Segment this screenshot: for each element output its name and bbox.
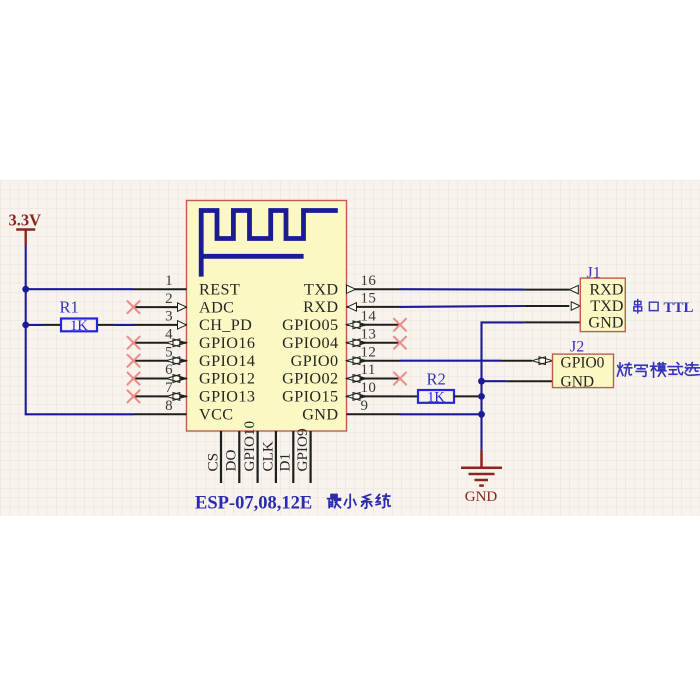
svg-text:GND: GND (588, 313, 623, 331)
svg-text:DO: DO (223, 450, 240, 472)
U1 pin 10 lead (347, 395, 403, 397)
wire pin15 RXD to J1 (400, 305, 524, 308)
no-ERC cross pin 11 (394, 373, 406, 385)
U1 pin 2 lead (134, 306, 187, 308)
svg-text:GND: GND (302, 406, 338, 424)
svg-text:11: 11 (361, 362, 376, 378)
U1 pin 11 lead (347, 378, 401, 380)
U1 pin 13 bidirectional arrow (347, 339, 361, 347)
U1 pin 2 input arrow (178, 303, 187, 311)
svg-text:CLK: CLK (259, 441, 276, 471)
svg-text:15: 15 (361, 291, 377, 307)
svg-text:TXD: TXD (590, 297, 624, 315)
svg-text:D1: D1 (277, 453, 294, 472)
wire pin12 GPIO0 to J2 (400, 360, 501, 362)
U1 pin 3 input arrow (178, 321, 187, 329)
wire pin9 GND to rail (400, 413, 482, 415)
U1 pin 4 bidirectional arrow (166, 339, 180, 347)
U1 pin 15 lead (347, 306, 401, 308)
svg-text:J1: J1 (587, 265, 601, 282)
no-ERC cross pin 6 (128, 373, 140, 385)
svg-text:14: 14 (361, 309, 377, 325)
svg-text:GPIO14: GPIO14 (199, 352, 255, 370)
IC U1 ESP-07/08/12E module body (187, 201, 347, 432)
junction rail/REST (22, 286, 29, 293)
connector J1 pin GND lead (524, 321, 580, 323)
svg-text:RXD: RXD (589, 281, 623, 299)
U1 PCB antenna meander graphic (201, 211, 338, 277)
U1 pin 15 input arrow (348, 303, 357, 311)
svg-text:16: 16 (361, 273, 377, 289)
no-ERC cross pin 14 (394, 319, 406, 331)
svg-text:4: 4 (165, 327, 173, 343)
U1 bottom pin CLK lead (275, 431, 277, 483)
no-ERC cross pin 7 (128, 390, 140, 402)
svg-text:R2: R2 (427, 369, 446, 388)
U1 pin 9 lead (347, 413, 401, 415)
U1 pin 14 bidirectional arrow (347, 321, 361, 329)
svg-text:GPIO15: GPIO15 (282, 388, 338, 406)
svg-text:ESP-07,08,12E: ESP-07,08,12E (195, 494, 312, 514)
ground symbol (461, 450, 502, 486)
svg-text:ADC: ADC (199, 298, 234, 316)
U1 pin 12 bidirectional arrow (347, 357, 361, 365)
U1 pin 6 bidirectional arrow (166, 375, 180, 383)
U1 pin 10 bidirectional arrow (347, 393, 361, 401)
svg-text:3.3V: 3.3V (9, 211, 42, 230)
U1 pin 16 lead (347, 288, 401, 290)
svg-text:GPIO0: GPIO0 (561, 354, 605, 371)
svg-text:13: 13 (361, 327, 377, 343)
U1 pin 1 lead (134, 288, 187, 290)
connector J2 pin GND lead (506, 380, 552, 382)
svg-text:R1: R1 (60, 298, 79, 317)
junction rail/R1 (22, 322, 29, 329)
U1 pin 4 lead (134, 342, 187, 344)
connector J1 body (580, 278, 625, 332)
junction rail/pin9 (478, 411, 485, 418)
svg-text:GPIO16: GPIO16 (199, 334, 255, 352)
svg-text:7: 7 (165, 380, 173, 396)
svg-text:9: 9 (361, 398, 369, 414)
U1 pin 5 lead (134, 360, 187, 362)
wire GND rail vertical (482, 322, 525, 449)
U1 pin 6 lead (134, 378, 187, 380)
U1 bottom pin D1 lead (292, 431, 294, 483)
connector J1 pin RXD lead (524, 289, 569, 291)
junction rail/R2 (478, 393, 485, 400)
svg-text:J2: J2 (570, 339, 584, 356)
wire GND rail to J2 (482, 380, 507, 382)
U1 bottom pin DO lead (238, 431, 240, 483)
wire rail to REST pin1 (26, 288, 134, 290)
wire rail to R1 (26, 324, 43, 326)
svg-text:GPIO05: GPIO05 (282, 316, 338, 334)
resistor R2 right lead (454, 395, 482, 397)
connector J1 pin TXD lead (524, 305, 569, 307)
no-ERC cross pin 2 (128, 301, 140, 313)
resistor R1 body (61, 319, 97, 332)
resistor R1 leads (43, 324, 61, 326)
svg-text:CH_PD: CH_PD (199, 316, 252, 334)
svg-text:VCC: VCC (199, 406, 233, 424)
svg-text:1: 1 (165, 273, 173, 289)
annotation chuan-kou TTL (serial TTL) (634, 300, 642, 313)
U1 bottom pin GPIO10 lead (257, 431, 259, 483)
wire R1 to CH_PD pin3 (115, 324, 135, 326)
power port 3.3V bar symbol (16, 230, 35, 246)
svg-text:3: 3 (165, 309, 173, 325)
svg-text:GPIO13: GPIO13 (199, 388, 255, 406)
schematic sheet background grid (0, 180, 700, 516)
no-ERC cross pin 4 (128, 337, 140, 349)
resistor R2 body (418, 390, 454, 403)
svg-text:GND: GND (465, 489, 498, 505)
svg-text:RXD: RXD (303, 298, 338, 316)
U1 pin 7 bidirectional arrow (166, 393, 180, 401)
no-ERC cross pin 5 (128, 355, 140, 367)
wire 3.3V rail vertical + VCC branch (26, 246, 134, 415)
wire pin16 TXD to J1 (400, 288, 524, 290)
connector J2 pin GPIO0 lead (501, 360, 532, 362)
svg-text:GPIO9: GPIO9 (294, 428, 311, 471)
svg-text:12: 12 (361, 344, 377, 360)
svg-text:GPIO0: GPIO0 (291, 352, 339, 370)
U1 pin 11 bidirectional arrow (347, 375, 361, 383)
svg-text:GPIO04: GPIO04 (282, 334, 338, 352)
J1 TXD arrow (571, 302, 580, 310)
svg-text:10: 10 (361, 380, 377, 396)
svg-text:REST: REST (199, 280, 240, 298)
no-ERC cross pin 13 (394, 337, 406, 349)
U1 pin 3 lead (134, 324, 187, 326)
U1 bottom pin GPIO9 lead (310, 431, 312, 483)
junction rail/J2 GND (478, 378, 485, 385)
J2 GPIO0 bidirectional arrow (532, 357, 546, 365)
U1 pin 8 lead (134, 413, 187, 415)
svg-text:GPIO02: GPIO02 (282, 370, 338, 388)
svg-text:1K: 1K (427, 389, 445, 405)
U1 pin 13 lead (347, 342, 401, 344)
U1 pin 16 output arrow (347, 285, 356, 293)
J1 RXD arrow (569, 285, 578, 293)
svg-text:CS: CS (204, 453, 221, 472)
annotation shao-xie-mo-shi-xuan-ze (flash mode select) (617, 363, 631, 376)
svg-text:1K: 1K (70, 318, 88, 334)
svg-text:GND: GND (561, 374, 595, 391)
svg-text:TXD: TXD (304, 280, 338, 298)
resistor R2 left lead (402, 395, 418, 397)
U1 bottom pin CS lead (220, 431, 222, 483)
svg-text:5: 5 (165, 344, 173, 360)
svg-text:6: 6 (165, 362, 173, 378)
U1 pin 12 lead (347, 360, 401, 362)
svg-text:2: 2 (165, 291, 173, 307)
U1 pin 5 bidirectional arrow (166, 357, 180, 365)
U1 pin 7 lead (134, 395, 187, 397)
svg-text:8: 8 (165, 398, 173, 414)
svg-text:TTL: TTL (664, 300, 694, 316)
U1 pin 14 lead (347, 324, 401, 326)
svg-text:GPIO10: GPIO10 (241, 420, 258, 471)
connector J2 body (553, 354, 614, 388)
svg-text:GPIO12: GPIO12 (199, 370, 255, 388)
